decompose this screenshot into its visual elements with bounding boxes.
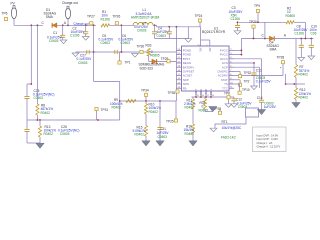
IC U1 body — [182, 46, 230, 91]
diode D2 — [152, 59, 157, 64]
svg-text:SOD-323: SOD-323 — [140, 66, 154, 70]
wire acp stub — [234, 66, 260, 68]
ground — [209, 107, 217, 112]
svg-text:R33: R33 — [146, 43, 152, 47]
ground — [156, 141, 164, 146]
wire PVCC to input — [234, 49, 241, 51]
svg-text:C06: C06 — [311, 32, 317, 36]
svg-text:TP2: TP2 — [244, 80, 250, 84]
svg-text:R0402: R0402 — [135, 133, 145, 137]
svg-text:TP31: TP31 — [101, 108, 109, 112]
ground — [251, 86, 258, 90]
wire — [110, 24, 136, 26]
notes box — [253, 127, 287, 152]
wire fb branch — [93, 52, 95, 82]
svg-text:Charge I : 2A: Charge I : 2A — [257, 141, 273, 145]
svg-text:FAD2-1K2: FAD2-1K2 — [221, 136, 236, 140]
IC U1 right pins — [229, 49, 234, 51]
svg-text:ISET: ISET — [194, 88, 198, 94]
wire fb riser — [119, 82, 121, 121]
svg-text:Input OVP : 14.9V: Input OVP : 14.9V — [257, 133, 279, 137]
capacitor C14 — [234, 58, 262, 60]
capacitor C27 — [86, 50, 88, 54]
svg-text:0.1uF/25V: 0.1uF/25V — [256, 79, 272, 83]
svg-text:C0603: C0603 — [121, 41, 131, 45]
wire top input bus — [14, 24, 43, 26]
resistor R10 — [145, 101, 147, 104]
resistor R7 divider — [295, 39, 297, 65]
ground — [132, 54, 139, 58]
svg-text:TP35: TP35 — [168, 91, 176, 95]
svg-text:SW: SW — [199, 47, 203, 52]
svg-text:R0402: R0402 — [44, 132, 54, 136]
wire bottom rail — [192, 96, 233, 98]
wire acdrv — [234, 75, 283, 77]
svg-text:TP10: TP10 — [242, 88, 250, 92]
svg-text:R0402: R0402 — [149, 110, 159, 114]
wire — [215, 117, 246, 128]
wire sense line — [76, 51, 177, 53]
ground — [82, 37, 89, 41]
ground — [210, 128, 217, 132]
ground — [234, 31, 241, 35]
svg-text:R0402: R0402 — [299, 96, 309, 100]
svg-text:TP30: TP30 — [137, 45, 145, 49]
wire left vertical B — [36, 25, 38, 104]
svg-text:SW: SW — [208, 47, 212, 52]
ground — [228, 99, 230, 104]
svg-text:TP27: TP27 — [87, 15, 95, 19]
svg-text:TP26: TP26 — [113, 15, 121, 19]
ground — [60, 40, 67, 44]
resistor R16 — [191, 124, 194, 134]
wire left vertical A — [30, 25, 32, 84]
svg-text:TP6: TP6 — [2, 12, 8, 16]
ground — [189, 141, 197, 146]
resistor R13 — [39, 120, 41, 126]
svg-text:C0603: C0603 — [78, 61, 88, 65]
resistor R8 — [36, 104, 39, 115]
capacitor C2 — [85, 24, 87, 26]
svg-text:Charge V : 12.327V: Charge V : 12.327V — [257, 145, 281, 149]
svg-text:10k/1%@25C: 10k/1%@25C — [222, 126, 242, 130]
svg-text:C0603: C0603 — [137, 29, 147, 33]
svg-text:TP1: TP1 — [125, 60, 131, 64]
svg-text:C13: C13 — [256, 69, 262, 73]
wire SW pins — [200, 27, 202, 46]
capacitor C1 — [62, 24, 64, 26]
svg-text:C0603: C0603 — [101, 41, 111, 45]
svg-text:C0603: C0603 — [157, 34, 167, 38]
ground — [142, 141, 150, 146]
ground — [257, 110, 265, 115]
svg-text:C0603: C0603 — [49, 39, 59, 43]
svg-text:C1206: C1206 — [295, 32, 305, 36]
resistor R12 — [295, 84, 297, 88]
svg-text:C14: C14 — [257, 96, 263, 100]
svg-text:C1206: C1206 — [70, 34, 80, 38]
svg-text:TTC: TTC — [222, 86, 228, 90]
capacitor C28 — [114, 50, 116, 54]
wire gnd rail — [155, 38, 189, 40]
svg-text:TP20: TP20 — [249, 20, 257, 24]
junction — [30, 24, 32, 26]
svg-text:SMA: SMA — [270, 48, 278, 52]
resistor R32 — [204, 97, 206, 99]
capacitor C26 — [24, 129, 29, 131]
svg-text:TP9: TP9 — [254, 4, 260, 8]
svg-text:SMA: SMA — [46, 15, 54, 19]
svg-text:R0402: R0402 — [299, 73, 309, 77]
testpoint TP29 pad — [167, 60, 170, 63]
ground — [292, 103, 300, 108]
wire fb tap — [286, 83, 305, 85]
svg-text:C0603: C0603 — [60, 132, 70, 136]
svg-text:HMP2520/2T-3R3M: HMP2520/2T-3R3M — [131, 16, 160, 20]
svg-text:R1206: R1206 — [101, 17, 111, 21]
svg-text:TMR: TMR — [204, 89, 208, 95]
wire kelvin taps — [93, 25, 95, 52]
svg-text:R0805: R0805 — [286, 14, 296, 18]
wire R2 line — [239, 21, 286, 23]
ground — [185, 39, 192, 43]
svg-text:R0805: R0805 — [150, 54, 160, 58]
wire — [57, 24, 96, 26]
ground — [298, 58, 305, 62]
svg-text:RT1: RT1 — [222, 120, 228, 124]
svg-text:Charge out: Charge out — [62, 1, 78, 5]
svg-text:1uF/25V: 1uF/25V — [264, 105, 277, 109]
IC U1 left pins — [176, 49, 181, 51]
resistor R9 — [126, 99, 136, 102]
wire bottom bus — [27, 119, 120, 121]
svg-text:TP32: TP32 — [244, 71, 252, 75]
svg-text:TP34: TP34 — [141, 89, 149, 93]
resistor R15 — [145, 114, 147, 126]
wire L1 to IC SW — [153, 24, 157, 26]
svg-text:R0402: R0402 — [41, 111, 51, 115]
resistor R11 — [192, 97, 194, 99]
svg-text:Input UVP : 4.43V: Input UVP : 4.43V — [257, 137, 279, 141]
svg-text:TP24: TP24 — [195, 14, 203, 18]
svg-text:C0603: C0603 — [34, 96, 44, 100]
svg-text:FB: FB — [183, 86, 187, 90]
ground sense — [72, 53, 79, 57]
capacitor C31 — [159, 100, 161, 102]
connector J-PV — [11, 7, 16, 18]
wire acn branch — [234, 62, 254, 64]
wire — [175, 27, 177, 101]
ground — [36, 143, 44, 148]
svg-text:C1206: C1206 — [231, 17, 241, 21]
svg-text:TP25: TP25 — [166, 119, 174, 123]
junction — [67, 24, 69, 26]
wire input rail — [241, 38, 269, 40]
ground — [308, 56, 315, 60]
svg-text:BQ24171RGYR: BQ24171RGYR — [202, 30, 226, 34]
svg-text:TP8: TP8 — [224, 91, 230, 95]
wire PV to bus — [13, 19, 15, 26]
wire jog — [27, 83, 31, 85]
svg-text:R0402: R0402 — [112, 106, 122, 110]
junction — [37, 24, 39, 26]
svg-text:TP28: TP28 — [277, 56, 285, 60]
svg-text:C0603: C0603 — [158, 135, 168, 139]
wire fb row — [120, 100, 176, 102]
IC U1 bottom pins — [195, 91, 197, 97]
capacitor C13 — [253, 63, 255, 73]
wire to R2 line — [264, 22, 266, 38]
svg-text:Charge out: Charge out — [74, 21, 89, 25]
